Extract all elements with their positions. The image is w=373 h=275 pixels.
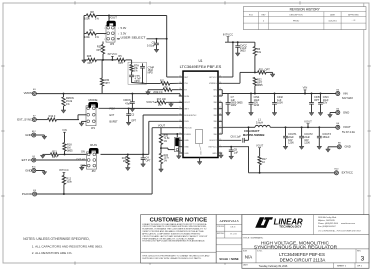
svg-text:VOUT: VOUT (158, 124, 166, 128)
svg-text:24: 24 (219, 82, 221, 84)
wire RUN net to IC (101, 153, 149, 155)
ground stub JP1 pin5 (82, 120, 87, 122)
svg-text:R28: R28 (87, 55, 92, 58)
svg-text:OPT: OPT (87, 62, 93, 65)
capacitor C7 (227, 94, 229, 103)
ground (170, 102, 172, 104)
resistor R14 0 (36, 119, 47, 121)
svg-text:JP3: JP3 (110, 43, 115, 46)
capacitor CIN5 (311, 93, 313, 95)
svg-text:0805: 0805 (257, 84, 263, 87)
svg-text:DEMO CIRCUIT 2113A: DEMO CIRCUIT 2113A (280, 258, 326, 263)
svg-text:150uF: 150uF (322, 136, 330, 139)
svg-text:LTC3649EFE# PBF-ES: LTC3649EFE# PBF-ES (279, 252, 325, 257)
title block (242, 215, 369, 269)
svg-text:C6 0.1uF: C6 0.1uF (231, 136, 242, 139)
svg-text:MA5456-502MEB: MA5456-502MEB (243, 133, 265, 137)
svg-text:APPROVALS: APPROVALS (219, 219, 238, 223)
svg-text:GK P.: GK P. (230, 226, 236, 229)
svg-text:TITLE: SCHEMATIC: TITLE: SCHEMATIC (243, 236, 263, 239)
capacitor C4 OPT (142, 154, 144, 158)
capacitor C3 OPT (128, 107, 130, 109)
ground (130, 109, 135, 112)
svg-text:JP1: JP1 (91, 127, 96, 130)
svg-text:APPROVED: APPROVED (348, 14, 359, 17)
svg-text:U1: U1 (198, 59, 202, 63)
svg-text:R14 0: R14 0 (49, 115, 56, 118)
svg-text:NPO: NPO (148, 72, 153, 75)
svg-text:BURST: BURST (110, 121, 119, 124)
svg-text:USER SELECT: USER SELECT (121, 35, 146, 39)
svg-text:EXT_SYNC: EXT_SYNC (17, 117, 32, 121)
capacitor CMON 47pF (131, 93, 133, 95)
ground (235, 53, 240, 56)
svg-text:EXT: EXT (110, 114, 115, 117)
revision history table (243, 7, 366, 30)
svg-text:EXTVCC: EXTVCC (209, 147, 218, 149)
capacitor COUT3 (318, 126, 320, 128)
svg-text:EXT I/O: EXT I/O (22, 158, 33, 162)
resistor R22 OPT 0805 (253, 77, 256, 86)
date row (333, 263, 335, 268)
svg-text:11: 11 (180, 133, 182, 135)
wire PGOOD (37, 193, 153, 195)
svg-text:THIS CIRCUIT IS PROPRIETARY TO: THIS CIRCUIT IS PROPRIETARY TO LINEAR TE… (142, 254, 210, 257)
ground (229, 156, 234, 159)
IC U1 right pins (218, 76, 222, 78)
resistor R8 100k (84, 15, 86, 17)
svg-text:R13: R13 (52, 150, 57, 153)
resistor R17 10 (258, 156, 261, 165)
wire E1 to JP2 row2 (36, 159, 87, 161)
svg-text:OF 1: OF 1 (357, 266, 363, 268)
svg-text:FSSFB: FSSFB (184, 134, 191, 136)
svg-text:100V: 100V (231, 104, 237, 107)
svg-text:1206: 1206 (288, 142, 294, 145)
svg-text:RUN: RUN (90, 143, 97, 147)
wire EXTVCC (222, 146, 248, 148)
svg-text:VIN: VIN (343, 91, 348, 95)
svg-text:INTVCC: INTVCC (59, 168, 69, 172)
svg-text:Fax: (408)434-0507: Fax: (408)434-0507 (318, 226, 336, 228)
svg-text:DATE: DATE (330, 14, 336, 17)
wire MODE jumper to ISET pin (99, 107, 179, 109)
svg-text:PCB DES.: PCB DES. (217, 226, 225, 228)
svg-text:PGOOD: PGOOD (22, 192, 32, 196)
svg-text:EXTVCC: EXTVCC (342, 171, 353, 175)
capacitor CIN3 (320, 93, 322, 95)
svg-text:0805: 0805 (67, 149, 73, 152)
svg-text:VOUT: VOUT (343, 125, 351, 129)
svg-text:1210: 1210 (254, 104, 260, 107)
jumper JP1 FB select (175, 137, 181, 151)
ground (82, 60, 87, 63)
svg-text:1630 McCarthy Blvd.: 1630 McCarthy Blvd. (318, 216, 337, 219)
frame zone ticks (74, 1, 76, 4)
resistor R31 OPT (102, 42, 104, 45)
svg-text:18: 18 (179, 82, 181, 84)
svg-text:REVISION HISTORY: REVISION HISTORY (290, 8, 321, 12)
svg-text:MODE/SYNC: MODE/SYNC (184, 115, 197, 117)
svg-text:SW: SW (213, 102, 216, 104)
svg-text:OPT: OPT (118, 62, 124, 65)
svg-text:27: 27 (219, 107, 221, 109)
svg-text:13: 13 (179, 120, 181, 122)
svg-text:0.01uF: 0.01uF (147, 44, 155, 48)
capacitor CIN4 (250, 93, 252, 95)
wire JP1 to FSSFB (176, 134, 178, 137)
svg-text:28: 28 (219, 101, 221, 103)
resistor R6 10k (254, 42, 256, 46)
svg-text:VOUT: VOUT (146, 100, 154, 104)
ground (126, 122, 131, 125)
svg-text:R11: R11 (160, 80, 165, 83)
ground (328, 146, 337, 148)
ground (43, 153, 45, 155)
capacitor CIN2 (274, 93, 276, 95)
resistor R13 OPT (44, 153, 50, 155)
ground (330, 112, 336, 114)
svg-text:COILCRAFT: COILCRAFT (244, 129, 260, 133)
svg-text:11/12/15: 11/12/15 (328, 20, 337, 22)
resistor RTH (131, 60, 133, 64)
resistor R9 100k (84, 33, 86, 35)
svg-text:MODE: MODE (89, 98, 98, 102)
svg-text:SW: SW (213, 128, 216, 130)
svg-text:DATE:: DATE: (243, 263, 249, 266)
svg-text:N/A: N/A (245, 254, 252, 259)
ground (125, 168, 130, 171)
capacitor COUT1 (285, 126, 287, 128)
svg-text:GND: GND (343, 110, 349, 114)
svg-text:63V: 63V (323, 102, 328, 105)
svg-text:R17 100: R17 100 (157, 98, 167, 101)
svg-text:0603: 0603 (240, 50, 246, 53)
svg-text:62V MAX: 62V MAX (342, 96, 353, 100)
svg-text:26: 26 (219, 114, 221, 116)
svg-text:100k: 100k (66, 180, 72, 183)
svg-text:CUSTOMER NOTICE: CUSTOMER NOTICE (150, 217, 208, 223)
svg-text:1. ALL CAPACITORS AND RESISTOR: 1. ALL CAPACITORS AND RESISTORS ARE 0603… (32, 244, 103, 248)
svg-text:VMON: VMON (24, 91, 32, 95)
op IC U1 LTC3649 (183, 71, 218, 157)
resistor R12 100k (62, 175, 65, 184)
capacitor COUT2 (301, 126, 303, 128)
svg-text:22: 22 (219, 95, 221, 97)
svg-text:1206: 1206 (304, 142, 310, 145)
svg-text:SCALE = NONE: SCALE = NONE (219, 257, 239, 261)
ground (159, 169, 164, 172)
svg-text:SW: SW (213, 115, 216, 117)
svg-text:PROD: PROD (293, 20, 300, 22)
wire GND bus left of IC (178, 140, 180, 156)
svg-text:5.6uH: 5.6uH (256, 120, 263, 124)
svg-text:TECHNOLOGY APPLICATIONS ENGINE: TECHNOLOGY APPLICATIONS ENGINEERING FOR … (142, 240, 205, 243)
svg-text:GND: GND (212, 153, 217, 155)
svg-text:LTC3649EFE# PBF-ES: LTC3649EFE# PBF-ES (180, 64, 222, 69)
svg-text:RUN: RUN (184, 121, 189, 123)
resistor R2 200k RT (146, 92, 151, 95)
svg-text:GND: GND (25, 168, 31, 172)
svg-text:VOUT: VOUT (184, 102, 190, 104)
svg-text:15: 15 (179, 107, 181, 109)
capacitor CTHP (142, 82, 144, 84)
ground (36, 134, 45, 136)
node FB (160, 145, 162, 154)
svg-text:SW: SW (213, 134, 216, 136)
svg-text:BOOST: BOOST (210, 140, 218, 142)
wire FSSFB (161, 133, 179, 135)
svg-text:VOUT: VOUT (109, 15, 118, 19)
svg-text:GND: GND (184, 153, 189, 155)
capacitor CVCC 2.2uF (237, 41, 239, 43)
svg-text:DESCRIPTION: DESCRIPTION (290, 15, 304, 17)
svg-text:SHEET 1: SHEET 1 (337, 266, 347, 268)
svg-text:VINREG: VINREG (209, 83, 217, 85)
ground stub JP2 pin5 (82, 165, 87, 167)
svg-text:OPT: OPT (146, 160, 151, 163)
svg-text:SW: SW (213, 121, 216, 123)
svg-text:MON: MON (184, 96, 189, 98)
svg-text:R9: R9 (89, 28, 93, 32)
IC U1 exposed pad GND (196, 130, 203, 144)
svg-text:OPT: OPT (131, 120, 136, 123)
ground GND pin right (220, 153, 222, 155)
resistor R30 OPT (101, 60, 103, 79)
svg-text:VIN: VIN (213, 90, 217, 92)
svg-text:ECO: ECO (249, 15, 254, 17)
svg-text:5V AT 4.0A: 5V AT 4.0A (342, 130, 355, 134)
wire R8 to JP3 pin1 (108, 15, 110, 17)
resistor RMON 15.0k (63, 93, 65, 95)
wire VINREG to divider (222, 82, 240, 84)
svg-text:FCM: FCM (110, 107, 115, 110)
svg-text:100V: 100V (277, 102, 283, 105)
svg-text:GND: GND (184, 140, 189, 142)
ground (141, 164, 146, 167)
svg-text:100k: 100k (84, 35, 90, 39)
ground (176, 156, 181, 159)
svg-text:INTVCC: INTVCC (209, 77, 217, 79)
wire INTVCC pin riser (232, 42, 234, 77)
ground (61, 110, 66, 113)
svg-text:GND: GND (184, 147, 189, 149)
IC U1 left pins (179, 76, 183, 78)
svg-text:ISET: ISET (184, 109, 189, 111)
svg-text:Milpitas, CA 95035: Milpitas, CA 95035 (318, 219, 336, 222)
svg-text:3: 3 (361, 255, 365, 262)
resistor R26 2M (127, 153, 129, 155)
svg-text:Tuesday, February 09, 2016: Tuesday, February 09, 2016 (259, 265, 288, 268)
svg-text:19: 19 (179, 88, 181, 90)
svg-text:ITH: ITH (184, 83, 188, 85)
node SET vertical (166, 16, 168, 78)
resistor R18 1M (63, 143, 66, 152)
svg-text:R21_OPT: R21_OPT (259, 69, 271, 72)
svg-text:ON: ON (81, 151, 85, 154)
wire bias row (84, 59, 88, 61)
wire to JP4 (77, 115, 79, 120)
customer notice box (141, 215, 217, 263)
wire VMON to MON pin (36, 93, 180, 95)
frame inner right border (363, 3, 365, 215)
svg-text:VIN: VIN (62, 128, 67, 132)
resistor R28 OPT (88, 58, 97, 61)
svg-text:23: 23 (219, 88, 221, 90)
svg-text:REV.: REV. (357, 251, 362, 253)
svg-text:JP2: JP2 (91, 170, 96, 173)
svg-text:GND: GND (25, 133, 31, 137)
svg-text:R8: R8 (90, 10, 94, 14)
resistor R5 OPT (117, 58, 126, 61)
svg-text:www.linear.com: www.linear.com (341, 223, 355, 225)
svg-text:1uF: 1uF (234, 152, 239, 155)
svg-text:2M: 2M (123, 160, 126, 163)
wire VIN bus (222, 76, 233, 78)
ground (36, 170, 45, 172)
svg-text:2. ALL RESISTORS ARE 1%.: 2. ALL RESISTORS ARE 1%. (32, 251, 73, 255)
svg-text:SUPPLIED FOR USE WITH LINEAR T: SUPPLIED FOR USE WITH LINEAR TECHNOLOGY … (142, 257, 201, 260)
svg-text:21: 21 (219, 139, 221, 141)
wire MODE/SYNC riser (143, 114, 179, 116)
resistor R25 71.5k (160, 128, 162, 135)
svg-text:VIN: VIN (213, 96, 217, 98)
svg-text:TECHNOLOGY: TECHNOLOGY (279, 225, 302, 229)
svg-text:GND: GND (345, 145, 351, 149)
compensation network box (128, 62, 146, 84)
svg-text:INTVCC: INTVCC (108, 52, 118, 56)
ground (270, 74, 275, 77)
svg-text:14: 14 (179, 114, 181, 116)
svg-text:VIN: VIN (303, 86, 308, 90)
svg-text:NOTES: UNLESS OTHERWISE SPECIF: NOTES: UNLESS OTHERWISE SPECIFIED, (23, 237, 90, 241)
wire ITH with resistor R11 (132, 83, 146, 84)
svg-text:OPT: OPT (52, 156, 57, 159)
svg-text:5.0V: 5.0V (121, 26, 127, 30)
svg-text:SW: SW (213, 109, 216, 111)
svg-text:OPT: OPT (105, 82, 111, 85)
svg-text:VOUT: VOUT (304, 120, 312, 124)
wire SW bus (221, 102, 223, 134)
svg-text:47pF: 47pF (125, 102, 131, 105)
svg-text:100k: 100k (84, 17, 90, 21)
svg-text:PGOOD: PGOOD (184, 128, 192, 130)
svg-text:OPT: OPT (96, 49, 102, 52)
svg-text:SYNCHRONOUS BUCK REGULATOR: SYNCHRONOUS BUCK REGULATOR (254, 245, 338, 251)
resistor R21 OPT (254, 71, 256, 73)
svg-text:IC NO.: IC NO. (257, 251, 263, 253)
approvals box (216, 215, 242, 263)
wire FB node to JP1 (161, 147, 168, 149)
svg-text:OPT: OPT (314, 99, 320, 102)
svg-text:INTVCC: INTVCC (223, 32, 233, 36)
resistor R24 137k (159, 153, 162, 164)
svg-text:W. ZH: W. ZH (230, 232, 237, 235)
svg-text:Phone: (408)432-1900: Phone: (408)432-1900 (318, 223, 339, 225)
ground (154, 49, 159, 52)
svg-text:VOUT: VOUT (256, 144, 264, 148)
wire left vertical to ground (83, 16, 85, 61)
logo Linear Technology (255, 217, 273, 228)
capacitor C8 1uF (230, 146, 232, 148)
capacitor C9 0.01uF (156, 38, 158, 40)
svg-text:12: 12 (179, 126, 181, 128)
size/icno/rev row (255, 249, 257, 263)
wire R18 to JP2 pin1 (65, 153, 87, 155)
ground below IC pad (199, 158, 201, 162)
svg-text:17: 17 (179, 76, 181, 78)
capacitor CTH (131, 72, 133, 76)
capacitor C6 0.1uF (222, 139, 241, 141)
svg-text:25: 25 (219, 76, 221, 78)
